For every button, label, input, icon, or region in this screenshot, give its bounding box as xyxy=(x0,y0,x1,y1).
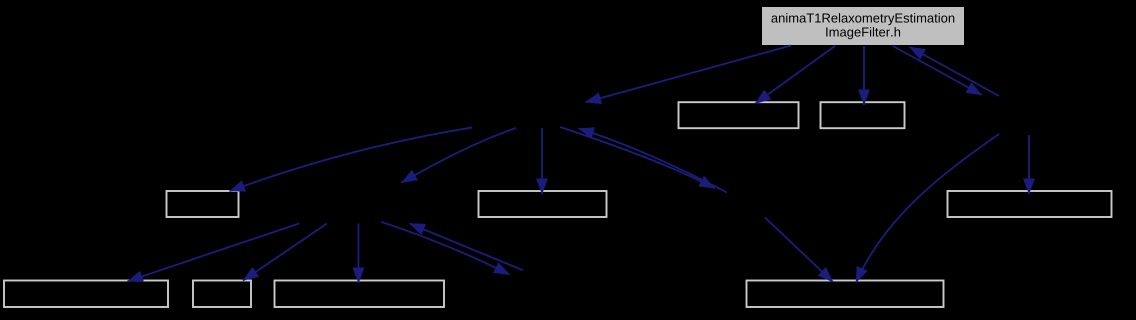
edge N4 to row4 box 4 xyxy=(765,218,833,283)
edge root to itkImage box xyxy=(863,46,865,105)
edge N3 to hidden node N5 xyxy=(381,222,510,275)
node row4 box 1 xyxy=(4,281,168,308)
node row4 box 3 xyxy=(275,281,445,308)
edge root to itkImageToImageFilter box xyxy=(755,46,835,104)
edge N2 to row3 box 3 xyxy=(1028,135,1030,194)
node itkImageToImageFilter.h (row2 left box) xyxy=(679,102,799,128)
edge hidden node N2 back to root xyxy=(910,47,1000,96)
node animaT1RelaxometryEstimationImageFilter.h (root, grey filled) xyxy=(762,7,964,45)
edge N2 to row4 box 4 (curved) xyxy=(856,134,999,283)
edge root to hidden node N1 xyxy=(586,46,792,103)
node row4 box 4 xyxy=(747,281,944,308)
edge N3 to row4 box 3 xyxy=(358,224,360,284)
node row3 box 2 xyxy=(479,191,607,217)
edge root to hidden node N2 xyxy=(893,46,982,95)
edge N3 to row4 box 1 xyxy=(128,224,300,282)
edge N4 back to N1 xyxy=(579,129,728,193)
edge N1 to hidden node N4 xyxy=(560,127,715,188)
edge N1 to row3 box 1 xyxy=(230,128,473,192)
node row3 box 1 xyxy=(167,191,239,217)
node itkImage.h (row2 right box) xyxy=(821,102,905,128)
edge N5 back to N3 xyxy=(410,224,524,271)
edge N3 to row4 box 2 xyxy=(243,224,327,281)
edge N1 to row3 box 2 xyxy=(541,128,543,194)
node row4 box 2 xyxy=(193,281,251,308)
node row3 box 3 xyxy=(948,191,1112,217)
edge N1 to hidden node N3 xyxy=(402,128,517,183)
